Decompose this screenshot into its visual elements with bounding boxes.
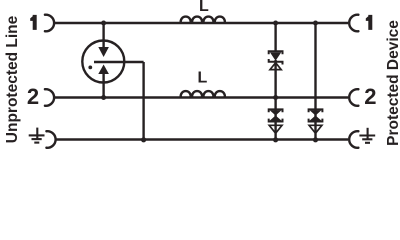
label 1 left (custom glyph) xyxy=(30,15,37,30)
inductor L2 humps xyxy=(181,91,225,97)
D1 outline triangle up xyxy=(270,63,281,70)
connector arc left line 2 xyxy=(45,89,54,106)
upper TVS D1 between line1 and line2 at x=275.6 xyxy=(269,51,283,64)
svg-text:L: L xyxy=(199,0,209,15)
wire line 2 xyxy=(53,96,348,98)
GDT gas dot xyxy=(88,66,92,70)
earth ground symbol right xyxy=(359,128,375,143)
svg-text:Protected Device: Protected Device xyxy=(385,20,400,146)
D3 bottom zener bar wings up xyxy=(309,119,323,122)
junction dot ground branch A xyxy=(273,137,278,142)
svg-text:L: L xyxy=(198,69,208,86)
junction dot line2 branch A xyxy=(273,95,278,100)
connector arc right ground xyxy=(349,131,358,148)
D2 top zener bar wings down xyxy=(269,109,283,112)
lower TVS D3 between line2 and ground at x=315.5 xyxy=(309,109,323,121)
D2 bottom zener bar wings up xyxy=(269,119,283,122)
svg-text:2: 2 xyxy=(27,84,39,109)
junction dot line2 GDT xyxy=(101,95,106,100)
GDT top arrow xyxy=(98,47,109,57)
connector arc left line 1 xyxy=(45,15,54,32)
lower TVS D2 between line2 and ground at x=275.6 xyxy=(269,109,283,121)
connector arc right line 2 xyxy=(349,89,358,106)
svg-text:Unprotected Line: Unprotected Line xyxy=(4,15,21,143)
GDT bottom electrode wire xyxy=(102,73,104,98)
label 1 right (custom glyph) xyxy=(366,15,373,30)
junction dot ground GDT xyxy=(141,137,146,142)
TVS branch A wire (mid and to line2) xyxy=(274,60,276,110)
D3 outline triangle down (series diode) xyxy=(309,125,322,133)
junction dot line1 branch B xyxy=(313,21,318,26)
TVS branch B wire (line1 over line2 to ground) xyxy=(314,23,316,140)
connector arc right line 1 xyxy=(349,15,358,32)
svg-text:2: 2 xyxy=(364,84,376,109)
wire ground bus xyxy=(55,138,349,140)
D2 outline triangle down (series diode) xyxy=(269,125,282,133)
inductor L1 humps xyxy=(181,17,225,23)
D3 top zener bar wings down xyxy=(309,109,323,112)
D1 top zener bar s-wings xyxy=(269,51,283,54)
junction dot line1 GDT xyxy=(101,21,106,26)
connector arc left ground xyxy=(46,131,55,148)
junction dot line1 branch A xyxy=(273,21,278,26)
D3 hourglass triangles xyxy=(310,110,322,120)
GDT bottom arrow xyxy=(98,65,109,75)
D2 hourglass triangles xyxy=(270,110,282,120)
GDT top electrode wire xyxy=(102,23,104,49)
D1 filled triangle down xyxy=(270,52,281,61)
gas discharge tube circle xyxy=(82,41,124,83)
TVS branch A wire (line1 stub) xyxy=(274,23,276,52)
GDT center electrode to ground wire xyxy=(142,62,144,140)
GDT center electrode bar xyxy=(94,61,144,63)
TVS branch A lower wire (line2 to ground) xyxy=(274,110,276,140)
wire line 1 (unprotected 1 to protected 1) xyxy=(53,22,348,24)
earth ground symbol left xyxy=(29,128,45,143)
D1 middle zener bar s-wings xyxy=(269,59,283,65)
junction dot ground branch B xyxy=(313,137,318,142)
